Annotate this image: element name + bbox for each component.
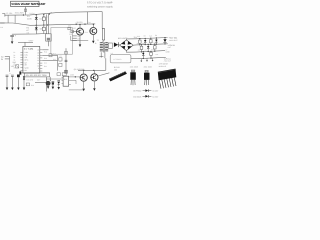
svg-text:1k: 1k [13,52,15,54]
svg-text:230: 230 [0,27,3,29]
svg-text:+12V 8A: +12V 8A [168,44,175,46]
svg-text:SB5: SB5 [142,43,145,45]
svg-text:VREF: VREF [29,40,34,42]
svg-text:11: 11 [38,63,40,65]
svg-text:R12: R12 [85,32,88,34]
svg-text:R21: R21 [44,66,47,68]
svg-text:R1: R1 [27,16,30,18]
svg-text:D3: D3 [76,22,78,24]
svg-text:100: 100 [138,49,140,51]
svg-text:C945: C945 [69,31,73,33]
svg-text:D9 FR302: D9 FR302 [133,90,141,92]
svg-text:5 CT: 5 CT [24,62,27,64]
svg-text:5 TO 24 VOLT 20 AMP: 5 TO 24 VOLT 20 AMP [87,2,112,5]
svg-text:1n: 1n [59,61,61,63]
svg-text:F1 10A: F1 10A [6,12,12,14]
svg-text:R7: R7 [73,28,76,30]
svg-text:2k: 2k [13,54,15,56]
svg-text:-12V 1A: -12V 1A [164,58,171,60]
svg-text:2625: 2625 [148,66,152,68]
svg-text:+: + [95,42,97,45]
svg-text:3k: 3k [13,57,15,59]
svg-text:T2: T2 [97,40,99,42]
svg-text:16: 16 [37,49,39,51]
svg-text:6 RT: 6 RT [24,64,27,66]
svg-text:C16 470: C16 470 [26,79,33,81]
svg-text:IC1 TL494: IC1 TL494 [24,48,33,50]
svg-text:D1: D1 [40,18,43,20]
svg-text:MODULE: MODULE [159,65,166,67]
svg-text:BYV42: BYV42 [114,67,120,69]
svg-text:+24V 20A: +24V 20A [169,37,177,39]
svg-text:MAIN OUT: MAIN OUT [169,39,177,41]
svg-text:0V: 0V [165,49,167,51]
svg-text:SW1 250V: SW1 250V [15,12,24,14]
svg-text:470: 470 [137,43,139,45]
svg-text:R20: R20 [44,58,47,60]
svg-text:R11: R11 [69,34,72,36]
svg-text:4k: 4k [13,59,15,61]
svg-text:switching power supply: switching power supply [87,6,113,9]
svg-text:Q1: Q1 [69,29,72,31]
svg-text:D6: D6 [155,35,157,37]
svg-text:R30: R30 [31,85,34,87]
svg-text:D7: D7 [145,49,147,51]
svg-text:2SC: 2SC [130,66,134,68]
svg-text:5V/24V 20AMP SMPS UNIT: 5V/24V 20AMP SMPS UNIT [11,3,45,6]
svg-text:C20: C20 [137,36,140,38]
svg-text:C5: C5 [68,25,71,27]
svg-text:C8: C8 [77,38,79,40]
svg-text:C3: C3 [27,32,30,34]
svg-text:C11: C11 [53,59,56,61]
svg-text:D5: D5 [144,35,146,37]
svg-text:+: + [50,79,51,81]
svg-text:2 1IN-: 2 1IN- [24,54,28,56]
svg-text:470: 470 [151,49,153,51]
svg-text:AUX OUT: AUX OUT [164,60,171,62]
svg-text:C24: C24 [155,54,158,56]
svg-text:2.2m: 2.2m [148,42,151,44]
svg-text:IN: IN [1,59,3,61]
svg-text:BR1 KBPC: BR1 KBPC [118,37,127,39]
svg-text:R18: R18 [44,51,47,53]
svg-text:R19: R19 [53,53,56,55]
svg-text:15: 15 [37,52,39,54]
svg-text:4.7: 4.7 [26,29,29,31]
svg-text:L1: L1 [111,53,113,55]
svg-text:R9: R9 [77,36,79,38]
svg-text:D2: D2 [40,28,43,30]
svg-text:35A: 35A [134,36,137,38]
svg-text:D4: D4 [88,22,90,24]
svg-text:12: 12 [37,60,39,62]
svg-text:C21: C21 [149,35,152,37]
svg-text:13: 13 [37,57,39,59]
svg-text:OUT: OUT [168,47,171,49]
svg-text:14: 14 [37,55,39,57]
svg-text:Q3 2SC3039: Q3 2SC3039 [74,68,84,70]
svg-text:3A 40V: 3A 40V [152,90,158,92]
svg-text:6A 50V: 6A 50V [152,96,158,98]
svg-text:4 DTC: 4 DTC [24,59,29,61]
svg-text:R24 R25 R26 R27 C14: R24 R25 R26 R27 C14 [26,74,46,76]
svg-text:AC: AC [1,56,4,58]
svg-text:5k: 5k [13,62,15,64]
svg-text:R2: R2 [26,27,29,29]
svg-text:STR S6707: STR S6707 [159,63,168,65]
svg-text:IC2: IC2 [64,79,67,81]
svg-text:8 C1: 8 C1 [24,70,27,72]
svg-text:D1-D4: D1-D4 [30,12,35,14]
svg-text:C12: C12 [44,62,47,64]
svg-text:L1 TOROID: L1 TOROID [113,59,121,61]
svg-text:D10 6A05: D10 6A05 [133,96,141,98]
svg-text:220K: 220K [27,18,32,20]
svg-text:1 1IN+: 1 1IN+ [24,52,29,54]
svg-text:7 GND: 7 GND [24,67,29,69]
svg-text:9: 9 [38,68,39,70]
svg-text:C15: C15 [43,74,47,76]
svg-text:4N35: 4N35 [70,74,74,76]
svg-text:10k: 10k [59,55,62,57]
svg-text:+: + [15,34,16,37]
svg-text:200: 200 [114,69,117,71]
svg-text:C17: C17 [37,79,40,81]
svg-text:SB5: SB5 [153,42,156,44]
svg-text:10: 10 [37,65,39,67]
svg-text:2SC: 2SC [144,66,148,68]
svg-text:+: + [9,73,10,75]
svg-text:7k: 7k [13,67,15,69]
svg-text:2625: 2625 [134,66,138,68]
svg-text:3 FB: 3 FB [24,57,27,59]
svg-text:GND: GND [166,51,170,53]
svg-text:6k: 6k [13,64,15,66]
